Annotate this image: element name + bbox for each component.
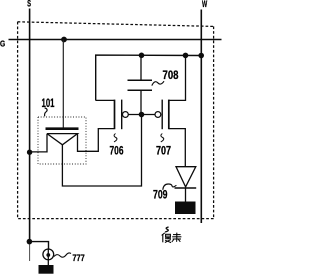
pixel boundary dashed box <box>18 22 214 219</box>
junction S / photogate left terminal <box>27 150 32 155</box>
photogate 101 left terminal <box>30 134 47 152</box>
caption 像素 (pixel) drawn as strokes: char 像 <box>162 233 172 243</box>
junction supply/transistor 707 drain <box>183 53 189 59</box>
707 channel bar <box>168 100 170 130</box>
707 gate bar <box>161 100 163 130</box>
svg-text:W: W <box>202 0 207 9</box>
junction S / reset branch <box>27 239 33 245</box>
capacitor 708 bottom stub <box>140 90 142 114</box>
leader squiggle for 101 <box>45 108 48 116</box>
leader squiggle for 709 <box>163 184 177 190</box>
photogate 101 gate plate <box>46 127 79 130</box>
wire: G row line <box>9 39 222 41</box>
leader squiggle for 706 <box>114 134 117 142</box>
706 channel bar <box>114 100 116 130</box>
capacitor 708 bottom plate <box>128 89 153 91</box>
wire: S column line <box>29 9 31 243</box>
photogate 101 right terminal <box>78 129 115 152</box>
svg-text:707: 707 <box>156 144 171 158</box>
gate net wire between bubbles <box>128 114 155 116</box>
diode 709 triangle <box>176 167 196 187</box>
707 source arm to diode <box>169 129 186 167</box>
junction gate node <box>139 112 145 118</box>
707 drain arm to supply row <box>169 55 186 100</box>
wire: supply row line <box>96 55 201 100</box>
706 gate bubble <box>123 112 129 118</box>
pad/source circle 777 <box>43 249 54 260</box>
photogate 101 dotted box <box>38 117 86 164</box>
caption 像素 (pixel) drawn as strokes: char 素 <box>172 233 182 242</box>
wire: branch to pad circle <box>29 242 48 249</box>
junction supply/capacitor <box>139 53 145 59</box>
diode 709 cathode bar <box>175 187 197 189</box>
wire: G to photogate top plate <box>62 40 64 128</box>
junction supply/W line <box>198 53 204 59</box>
photogate 101 bottom terminal <box>62 115 141 187</box>
svg-text:708: 708 <box>163 69 179 82</box>
leader squiggle for pixel caption <box>165 227 169 232</box>
photogate 101 body triangle <box>47 134 78 145</box>
leader squiggle for 777 <box>54 253 71 257</box>
leader squiggle for 708 <box>152 81 164 85</box>
capacitor 708 top plate <box>128 79 153 81</box>
svg-text:777: 777 <box>72 253 84 263</box>
diode 709 stub to ground <box>185 188 187 202</box>
svg-text:101: 101 <box>42 97 55 110</box>
svg-text:706: 706 <box>110 143 124 157</box>
svg-text:S: S <box>27 0 31 9</box>
706 gate bar <box>121 100 123 130</box>
707 gate bubble <box>155 112 161 118</box>
pad center dot <box>46 253 50 257</box>
ground block bottom left <box>39 265 54 274</box>
junction on G line above photogate <box>61 37 67 43</box>
ground block under diode <box>175 202 196 215</box>
svg-text:G: G <box>0 38 5 48</box>
capacitor 708 top stub <box>140 55 142 80</box>
leader squiggle for 707 <box>161 134 164 142</box>
pad circle vertical line <box>47 249 49 266</box>
svg-text:709: 709 <box>153 187 168 201</box>
706 top arm <box>96 99 115 101</box>
wire: S line thin tail <box>29 242 31 261</box>
wire: W column line <box>200 10 202 224</box>
